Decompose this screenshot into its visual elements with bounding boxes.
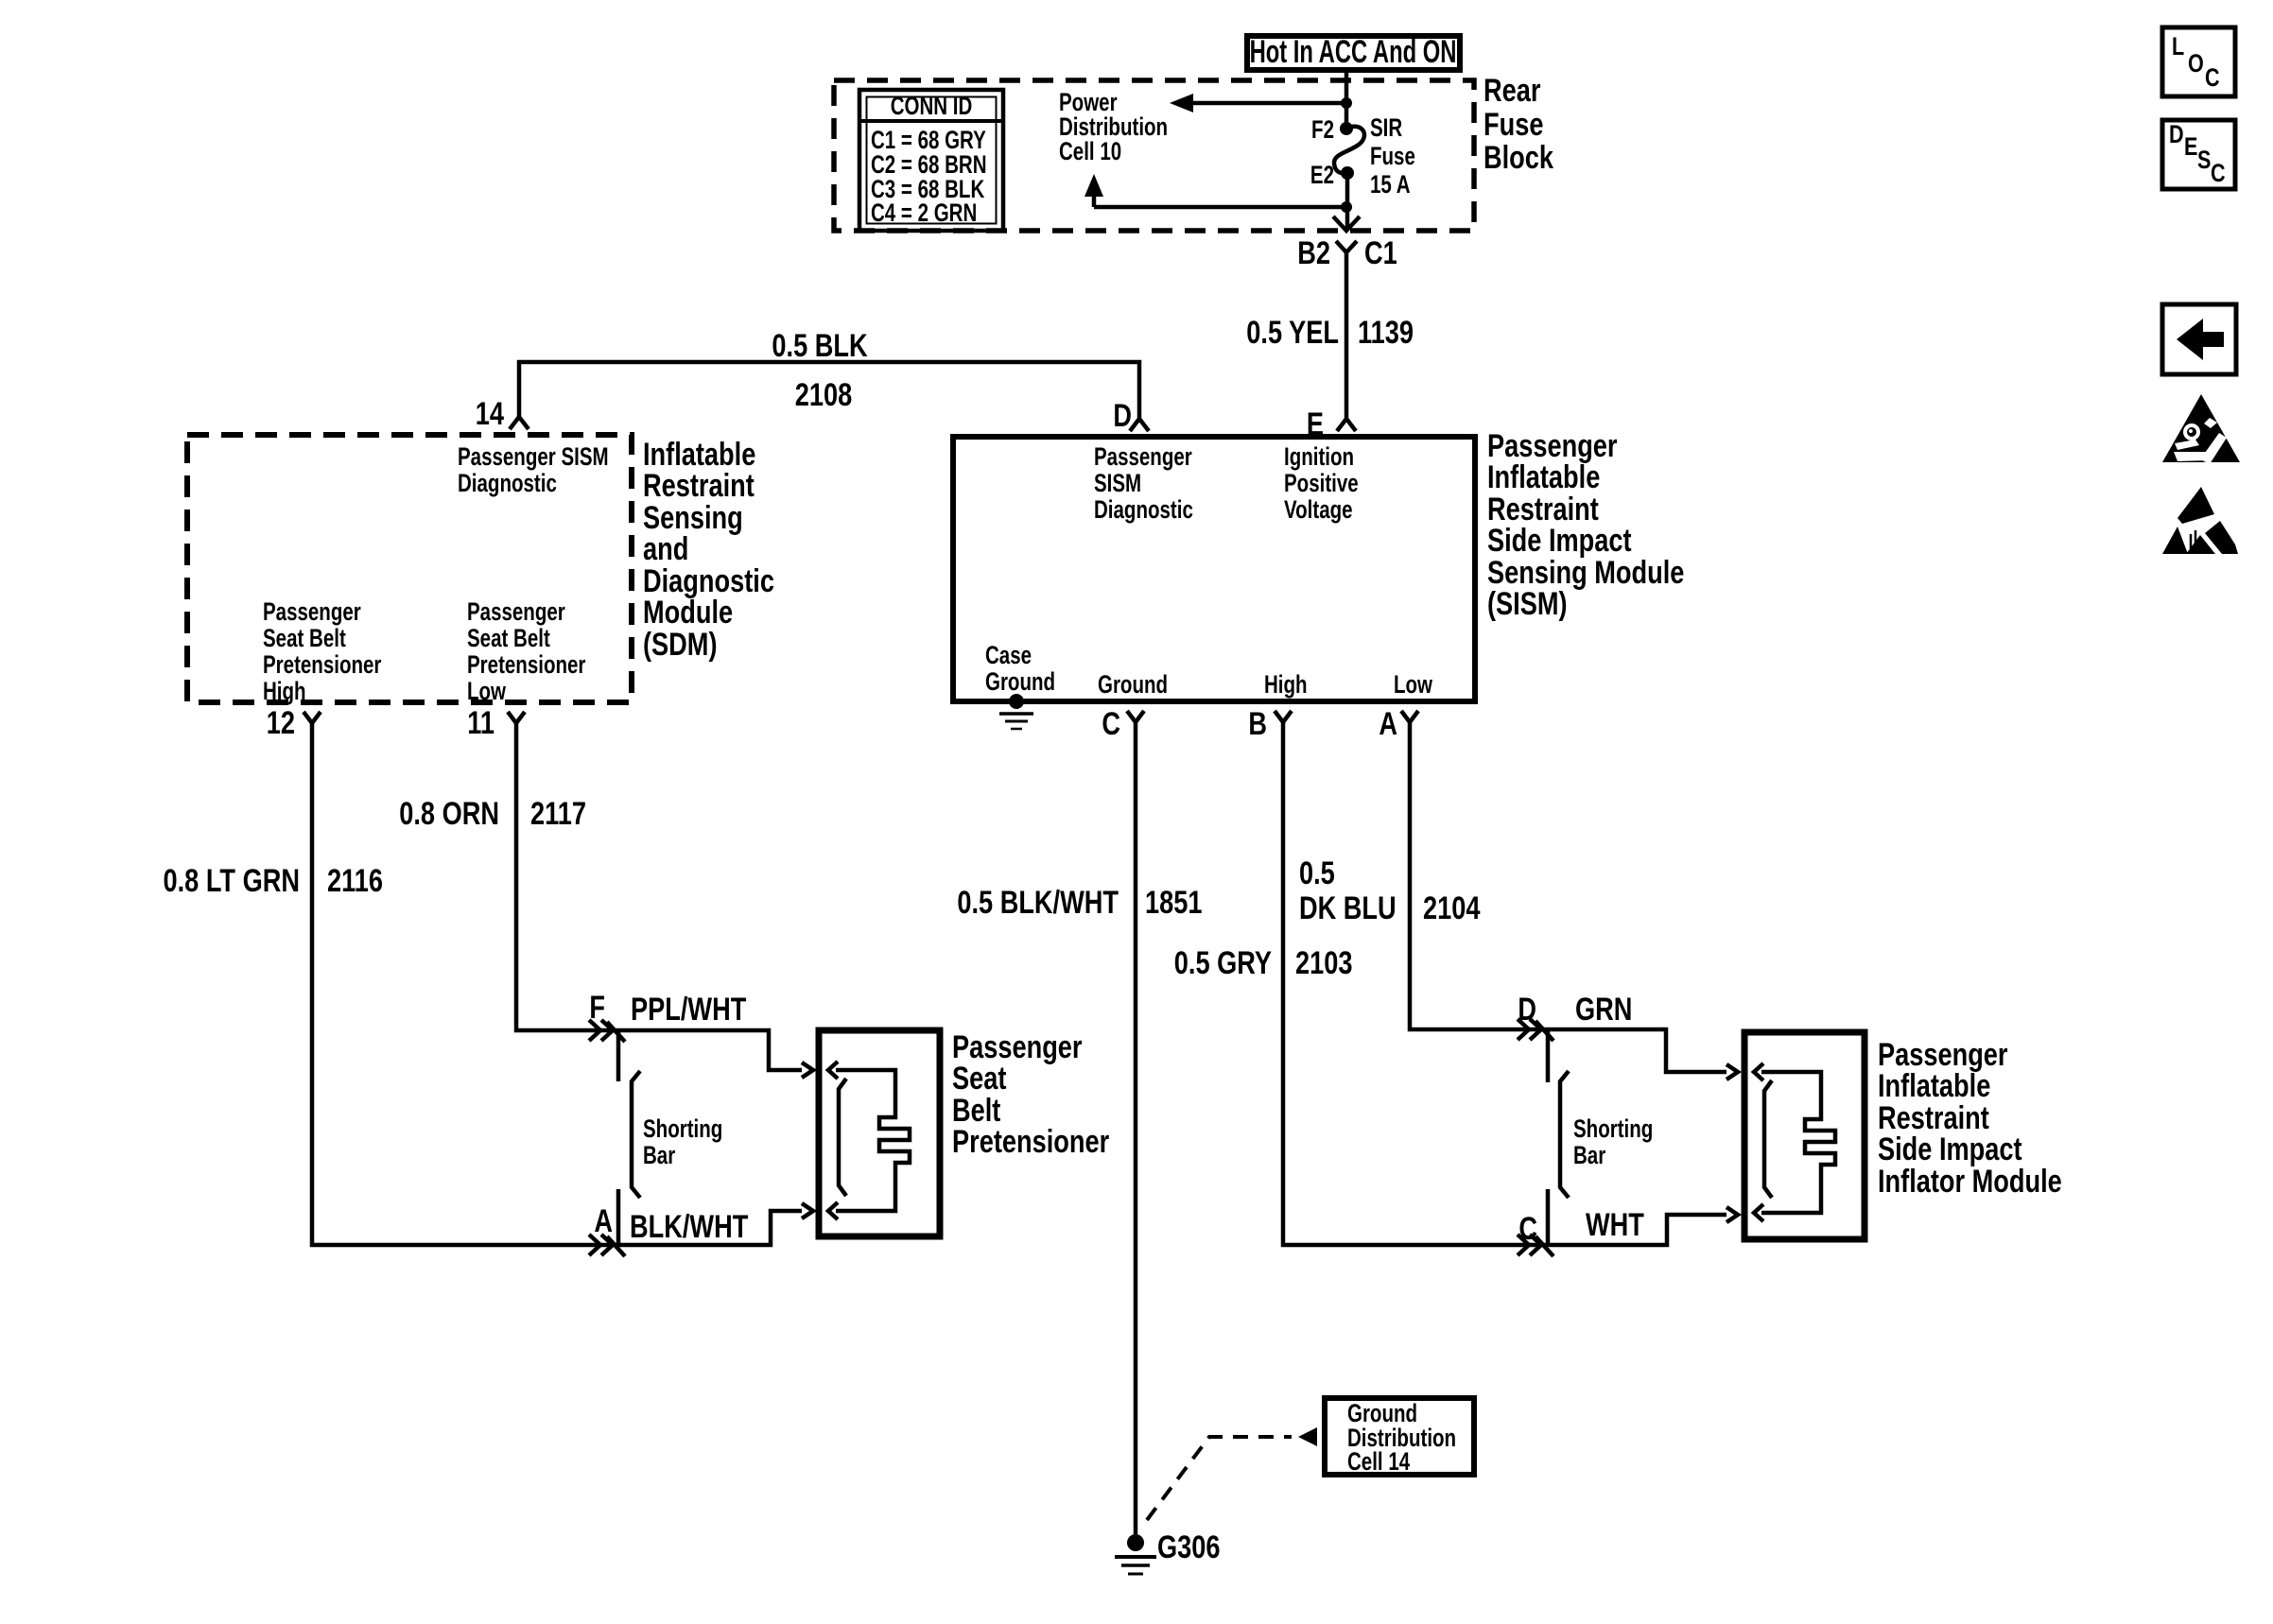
svg-text:CONN ID: CONN ID — [891, 92, 973, 120]
pin 12 connector — [304, 712, 321, 723]
svg-text:14: 14 — [476, 395, 504, 432]
svg-text:0.8 LT GRN: 0.8 LT GRN — [164, 862, 300, 899]
svg-text:Pretensioner: Pretensioner — [952, 1123, 1109, 1160]
svg-text:C: C — [1102, 705, 1120, 742]
svg-text:Ignition: Ignition — [1284, 442, 1354, 471]
svg-text:11: 11 — [467, 704, 495, 741]
svg-text:Inflator Module: Inflator Module — [1878, 1163, 2062, 1200]
svg-text:Shorting: Shorting — [1573, 1114, 1653, 1143]
svg-text:C: C — [2211, 160, 2226, 188]
shorting bar (right) — [1560, 1071, 1569, 1198]
svg-text:A: A — [1379, 705, 1397, 742]
svg-text:Inflatable: Inflatable — [1487, 458, 1600, 495]
svg-text:2104: 2104 — [1423, 890, 1480, 926]
junction dot at feed — [1341, 97, 1352, 109]
svg-text:PPL/WHT: PPL/WHT — [631, 991, 746, 1028]
fuse SIR Fuse 15A (F2/E2) — [1334, 127, 1364, 174]
pin 14 connector — [510, 417, 529, 429]
wire vertical feed from Hot box through fuse — [1345, 70, 1349, 129]
Ground Distribution Cell 14 box — [1325, 1398, 1474, 1475]
dashed arrow to Ground Distribution — [1147, 1437, 1292, 1520]
Rear Fuse Block (dashed outline) — [834, 80, 1474, 231]
svg-text:Low: Low — [467, 677, 506, 705]
ground G306 — [1127, 1534, 1144, 1551]
svg-text:GRN: GRN — [1575, 991, 1632, 1028]
svg-text:2117: 2117 — [530, 795, 586, 832]
svg-text:BLK/WHT: BLK/WHT — [630, 1208, 748, 1245]
wire 0.8 LT GRN 2116 (pin 12 to A) — [312, 723, 802, 1245]
svg-text:Passenger: Passenger — [263, 597, 361, 626]
svg-text:E2: E2 — [1310, 161, 1334, 189]
svg-text:D: D — [1113, 397, 1132, 434]
svg-text:Pretensioner: Pretensioner — [263, 650, 381, 679]
svg-text:A: A — [594, 1202, 613, 1239]
squib element — [1761, 1072, 1835, 1213]
svg-text:0.5 BLK: 0.5 BLK — [772, 327, 867, 364]
svg-text:1851: 1851 — [1145, 884, 1202, 921]
svg-text:G306: G306 — [1157, 1529, 1220, 1565]
svg-text:DK BLU: DK BLU — [1299, 890, 1397, 926]
pin 11 connector — [508, 712, 525, 723]
svg-text:Cell 10: Cell 10 — [1059, 137, 1121, 165]
wire 0.5 DK BLU 2104 (pin A to D) — [1410, 722, 1726, 1072]
svg-text:Ground: Ground — [985, 667, 1055, 696]
squib element — [836, 1070, 910, 1211]
internal bracket — [839, 1079, 846, 1196]
svg-text:Fuse: Fuse — [1484, 106, 1543, 143]
svg-text:C4 = 2 GRN: C4 = 2 GRN — [871, 199, 977, 227]
DESC icon — [2162, 120, 2235, 189]
svg-text:D: D — [1518, 991, 1536, 1028]
svg-text:Low: Low — [1394, 670, 1432, 699]
svg-text:High: High — [263, 677, 306, 705]
pin B connector — [1275, 711, 1292, 722]
pin A connector — [1401, 711, 1418, 722]
svg-text:Seat: Seat — [952, 1060, 1006, 1097]
in-line connector C (WHT) — [1518, 1189, 1553, 1256]
pin D connector — [1130, 419, 1149, 431]
case ground symbol — [1009, 694, 1024, 709]
wire 0.8 ORN 2117 (pin 11 to F) — [516, 723, 802, 1070]
svg-text:D: D — [2169, 121, 2184, 149]
internal bracket — [1764, 1080, 1772, 1198]
svg-text:F2: F2 — [1311, 115, 1334, 144]
pin C connector — [1127, 711, 1144, 722]
svg-text:Hot In ACC And ON: Hot In ACC And ON — [1250, 34, 1457, 70]
svg-text:Shorting: Shorting — [643, 1114, 722, 1143]
svg-text:2108: 2108 — [795, 376, 852, 413]
svg-text:Seat Belt: Seat Belt — [263, 624, 346, 652]
svg-text:Block: Block — [1484, 139, 1554, 176]
svg-text:(SISM): (SISM) — [1487, 585, 1568, 622]
svg-text:Diagnostic: Diagnostic — [458, 469, 557, 497]
svg-text:Inflatable: Inflatable — [1878, 1067, 1990, 1104]
svg-text:Cell 14: Cell 14 — [1347, 1447, 1411, 1476]
svg-text:B: B — [1248, 705, 1267, 742]
arrow leaving fuse block (down) — [1333, 216, 1360, 231]
svg-text:15 A: 15 A — [1370, 170, 1411, 199]
wire arrow to Power Distribution (left) — [1180, 101, 1346, 106]
svg-text:Rear: Rear — [1484, 72, 1540, 109]
svg-text:C1: C1 — [1364, 234, 1397, 271]
wire — [519, 362, 1139, 419]
in-line connector D (GRN) — [1518, 1019, 1553, 1082]
svg-text:Bar: Bar — [643, 1141, 675, 1169]
svg-text:0.5 GRY: 0.5 GRY — [1174, 944, 1273, 981]
svg-text:Passenger SISM: Passenger SISM — [458, 442, 609, 471]
shorting bar (left) — [632, 1071, 640, 1198]
ESD warning triangle — [2178, 487, 2214, 524]
svg-text:S: S — [2197, 147, 2211, 175]
pin (top) — [828, 1062, 838, 1079]
svg-text:Bar: Bar — [1573, 1141, 1605, 1169]
airbag warning triangle — [2162, 394, 2240, 462]
svg-text:Restraint: Restraint — [643, 467, 755, 504]
back arrow icon — [2162, 304, 2236, 374]
svg-text:C: C — [1518, 1210, 1537, 1247]
svg-text:Seat Belt: Seat Belt — [467, 624, 550, 652]
svg-text:Passenger: Passenger — [1094, 442, 1192, 471]
svg-text:Voltage: Voltage — [1284, 495, 1353, 524]
svg-text:0.5: 0.5 — [1299, 855, 1335, 891]
LOC icon — [2162, 27, 2235, 96]
svg-text:L: L — [2172, 33, 2184, 61]
svg-text:F: F — [589, 989, 605, 1026]
node Hot In ACC And ON box — [1247, 36, 1460, 70]
svg-text:High: High — [1264, 670, 1308, 699]
svg-text:E: E — [2184, 133, 2197, 162]
connector B2/C1 — [1336, 241, 1357, 419]
svg-text:(SDM): (SDM) — [643, 626, 718, 663]
svg-text:Positive: Positive — [1284, 469, 1359, 497]
svg-text:Passenger: Passenger — [467, 597, 565, 626]
svg-text:SISM: SISM — [1094, 469, 1141, 497]
svg-text:Module: Module — [643, 594, 733, 631]
svg-text:WHT: WHT — [1586, 1206, 1644, 1243]
svg-text:Side Impact: Side Impact — [1878, 1131, 2022, 1167]
svg-text:0.5 BLK/WHT: 0.5 BLK/WHT — [957, 884, 1119, 921]
svg-text:B2: B2 — [1297, 234, 1330, 271]
svg-text:1139: 1139 — [1358, 314, 1414, 351]
pin (bottom) — [1754, 1204, 1763, 1221]
wire 0.5 GRY 2103 (pin B to C) — [1283, 722, 1726, 1245]
svg-text:Ground: Ground — [1098, 670, 1168, 699]
svg-text:Case: Case — [985, 641, 1032, 669]
in-line connector F (PPL/WHT) — [589, 1020, 625, 1081]
CONN ID table — [859, 90, 1003, 231]
svg-text:C: C — [2205, 64, 2220, 93]
in-line connector A (BLK/WHT) — [589, 1189, 625, 1256]
svg-text:0.8 ORN: 0.8 ORN — [399, 795, 499, 832]
svg-text:SIR: SIR — [1370, 113, 1402, 142]
svg-text:Fuse: Fuse — [1370, 142, 1415, 170]
wire below fuse — [1345, 173, 1350, 229]
pin (bottom) — [828, 1202, 838, 1219]
svg-text:2116: 2116 — [327, 862, 383, 899]
pin (top) — [1754, 1063, 1763, 1080]
svg-text:0.5 YEL: 0.5 YEL — [1246, 314, 1339, 351]
svg-text:Diagnostic: Diagnostic — [1094, 495, 1193, 524]
junction dot below fuse — [1341, 201, 1352, 213]
svg-text:O: O — [2188, 50, 2204, 78]
svg-text:Side Impact: Side Impact — [1487, 522, 1632, 559]
svg-text:12: 12 — [267, 704, 295, 741]
svg-text:Pretensioner: Pretensioner — [467, 650, 585, 679]
pin E connector (lambda) — [1337, 419, 1356, 431]
wire return arrow to Power Distribution (up arrow) — [1094, 183, 1346, 207]
svg-text:and: and — [643, 530, 688, 567]
svg-text:2103: 2103 — [1295, 944, 1352, 981]
